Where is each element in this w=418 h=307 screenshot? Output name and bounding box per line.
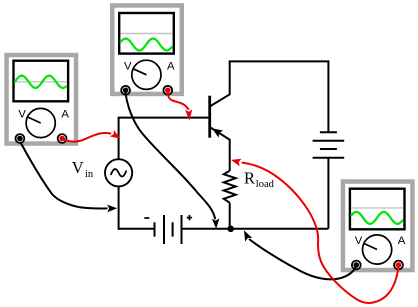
M1 (input) screen centerline bbox=[15, 81, 67, 83]
label: R_load bbox=[244, 169, 275, 190]
M3 (output) screen centerline bbox=[351, 207, 403, 209]
source V_in (AC) bbox=[105, 159, 132, 186]
M1 (input) black terminal bbox=[16, 134, 25, 143]
M2 (base) green trace bbox=[121, 39, 172, 51]
battery V1 (base bias) bbox=[155, 215, 182, 244]
M3 (output) black terminal bbox=[352, 261, 361, 270]
M2 (base) dial bbox=[132, 60, 161, 89]
svg-text:V: V bbox=[18, 109, 26, 121]
wire: bottom rail left bbox=[182, 228, 231, 230]
svg-text:A: A bbox=[167, 61, 175, 73]
probe: M2 black lead bbox=[126, 93, 220, 229]
svg-text:V: V bbox=[355, 235, 363, 247]
wire: bottom rail right bbox=[231, 228, 329, 230]
M2 (base) screen bbox=[119, 13, 174, 54]
svg-text:in: in bbox=[85, 169, 94, 180]
multimeter M3 (output) bbox=[341, 179, 415, 272]
svg-text:R: R bbox=[244, 169, 255, 188]
M3 (output) green trace bbox=[351, 212, 402, 224]
wire: top rail bbox=[229, 60, 329, 62]
svg-text:V: V bbox=[72, 158, 84, 177]
M2 (base) screen centerline bbox=[121, 33, 173, 35]
wire: R_load to node bbox=[229, 203, 231, 229]
probe: M3 black lead bbox=[244, 230, 356, 279]
M1 (input) screen bbox=[14, 61, 69, 102]
M1 (input) red terminal bbox=[58, 134, 67, 143]
resistor R_load bbox=[224, 171, 236, 203]
wire: left rail upper bbox=[118, 118, 120, 160]
node: emitter junction bbox=[227, 226, 234, 233]
svg-text:load: load bbox=[256, 179, 275, 190]
svg-text:V: V bbox=[124, 61, 132, 73]
M2 (base) frame bbox=[110, 3, 184, 96]
M2 (base) black terminal bbox=[121, 86, 130, 95]
label: V_in bbox=[72, 158, 94, 180]
multimeter M2 (base) bbox=[110, 3, 184, 96]
probe: M1 red lead bbox=[62, 130, 120, 142]
M1 (input) green trace bbox=[15, 76, 66, 88]
probe: M2 red lead bbox=[168, 93, 193, 121]
M3 (output) dial bbox=[363, 235, 392, 264]
wire: base bbox=[118, 117, 210, 119]
wire: left rail lower bbox=[118, 186, 120, 229]
transistor Q1 (PNP) bbox=[210, 94, 230, 140]
M2 (base) needle bbox=[133, 69, 146, 75]
probe: M1 black lead bbox=[21, 143, 118, 213]
wire: right rail upper bbox=[327, 60, 329, 132]
M3 (output) red terminal bbox=[394, 261, 403, 270]
M2 (base) red terminal bbox=[163, 86, 172, 95]
wire: right rail lower bbox=[327, 158, 329, 229]
probe: M3 red lead bbox=[231, 159, 399, 303]
wire: emitter lead bbox=[229, 139, 231, 171]
multimeter M1 (input) bbox=[4, 53, 78, 146]
M1 (input) dial bbox=[26, 108, 55, 137]
M1 (input) needle bbox=[27, 117, 40, 123]
M3 (output) screen bbox=[350, 189, 405, 230]
M1 (input) frame bbox=[4, 53, 78, 146]
battery V2 (collector supply) bbox=[313, 132, 345, 157]
svg-text:A: A bbox=[398, 235, 406, 247]
wire: bottom left segment bbox=[119, 228, 155, 230]
label: battery V1 '-' bbox=[144, 217, 149, 219]
label: battery V1 '+' bbox=[187, 215, 192, 220]
M3 (output) needle bbox=[364, 243, 377, 249]
M3 (output) frame bbox=[341, 179, 415, 272]
wire: collector riser bbox=[229, 61, 231, 95]
svg-text:A: A bbox=[61, 109, 69, 121]
